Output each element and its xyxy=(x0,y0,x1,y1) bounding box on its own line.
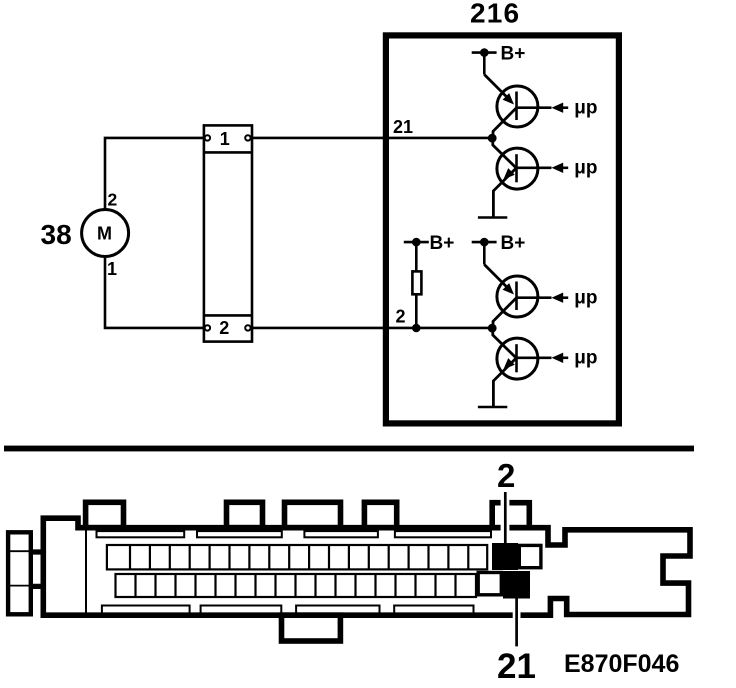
transistor Q4 emitter wire xyxy=(493,358,516,407)
lower shelf segment 1 xyxy=(102,606,190,614)
connector housing body outline xyxy=(43,518,690,615)
lower shelf segment 3 xyxy=(296,606,379,614)
connector housing left bracket xyxy=(8,532,31,614)
cell right of pin 2 xyxy=(519,545,541,567)
upper shelf segment 3 xyxy=(304,531,378,537)
transistor Q2 xyxy=(497,148,552,189)
bracket arm top xyxy=(29,549,46,554)
svg-text:216: 216 xyxy=(470,0,520,29)
bracket inner crossbar top xyxy=(10,550,29,552)
svg-text:2: 2 xyxy=(497,457,515,494)
motor M1 xyxy=(82,210,129,257)
transistor Q2 emitter wire xyxy=(493,168,516,217)
housing top tab 4 xyxy=(364,502,396,527)
B+ supply 1 xyxy=(472,44,526,75)
top pin row xyxy=(107,545,487,569)
svg-text:2: 2 xyxy=(108,190,118,210)
svg-text:μp: μp xyxy=(574,97,597,118)
housing top tab 3 xyxy=(285,502,341,527)
transistor Q3 emitter wire xyxy=(484,265,510,291)
microprocessor arrow 3 xyxy=(552,293,564,303)
svg-text:B+: B+ xyxy=(501,233,526,254)
transistor Q4 xyxy=(497,338,552,379)
bottom pin row xyxy=(116,574,477,597)
svg-text:2: 2 xyxy=(219,318,229,338)
bracket inner crossbar bottom xyxy=(10,585,29,587)
B+ supply 3 xyxy=(472,233,526,265)
microprocessor arrow 1 xyxy=(552,103,564,113)
upper shelf segment 2 xyxy=(197,531,282,537)
wire motor top to connector pin 1 xyxy=(105,138,206,211)
lower shelf segment 2 xyxy=(201,606,282,614)
ground 1 xyxy=(478,216,507,219)
housing top tab 1 xyxy=(86,502,124,527)
transistor Q4 emitter arrow xyxy=(503,358,514,369)
control unit box 216 xyxy=(386,35,619,423)
transistor Q3 emitter arrow xyxy=(503,283,514,294)
housing inner divider line xyxy=(85,531,87,613)
pin 21 (filled) xyxy=(503,571,530,599)
section divider xyxy=(4,446,694,452)
svg-text:B+: B+ xyxy=(430,233,455,254)
microprocessor arrow 2 xyxy=(552,163,564,173)
terminal circle pin2 left xyxy=(205,325,210,330)
wire connector pin 1 to node 21 xyxy=(249,137,492,140)
svg-text:M: M xyxy=(97,224,112,244)
pin 2 (filled) xyxy=(492,543,518,570)
transistor Q1 emitter arrow xyxy=(503,93,514,104)
node 2 junction xyxy=(488,324,497,333)
svg-text:38: 38 xyxy=(41,219,72,250)
housing bottom lug xyxy=(282,615,341,641)
resistor R1 xyxy=(412,271,421,294)
pin 21 callout line xyxy=(515,599,518,647)
callout line gap mask 21 xyxy=(513,611,521,619)
svg-text:μp: μp xyxy=(574,157,597,178)
transistor Q3 collector wire xyxy=(493,298,517,328)
transistor Q1 collector wire xyxy=(493,108,517,138)
svg-text:μp: μp xyxy=(574,347,597,368)
housing top tab 5 xyxy=(492,503,529,528)
resistor to node wire xyxy=(415,295,418,328)
housing top tab 2 xyxy=(227,502,263,527)
wire motor bottom to connector pin 2 xyxy=(105,257,206,328)
transistor Q1 xyxy=(497,86,552,127)
svg-text:2: 2 xyxy=(396,307,406,327)
lower shelf segment 4 xyxy=(394,606,473,614)
svg-text:μp: μp xyxy=(574,287,597,308)
terminal circle pin2 right xyxy=(245,325,250,330)
microprocessor arrow 4 xyxy=(552,353,564,363)
upper shelf segment 1 xyxy=(97,531,185,537)
svg-text:21: 21 xyxy=(393,117,413,137)
bracket arm bottom xyxy=(29,584,46,589)
svg-text:B+: B+ xyxy=(501,44,526,65)
callout line gap mask 2 xyxy=(501,498,510,532)
transistor Q1 emitter wire xyxy=(484,75,510,101)
ground 2 xyxy=(478,406,507,409)
wire connector pin 2 to node 2 xyxy=(249,327,492,330)
transistor Q4 collector wire xyxy=(493,328,517,358)
node 2 junction at resistor xyxy=(412,324,421,333)
transistor Q3 xyxy=(497,276,552,317)
connector block X1 xyxy=(204,125,252,341)
terminal circle pin1 left xyxy=(205,135,210,140)
transistor Q2 emitter arrow xyxy=(503,168,514,179)
svg-text:21: 21 xyxy=(497,647,536,686)
terminal circle pin1 right xyxy=(245,135,250,140)
svg-text:1: 1 xyxy=(220,129,230,149)
node 21 junction xyxy=(488,134,497,143)
B+ supply 2 (resistor branch) xyxy=(404,233,455,270)
transistor Q2 collector wire xyxy=(493,138,517,168)
cell left of pin 21 xyxy=(478,573,501,595)
svg-text:1: 1 xyxy=(107,259,117,279)
upper shelf segment 4 xyxy=(395,531,491,537)
pin 2 callout line xyxy=(504,492,507,544)
svg-text:E870F046: E870F046 xyxy=(564,650,679,678)
